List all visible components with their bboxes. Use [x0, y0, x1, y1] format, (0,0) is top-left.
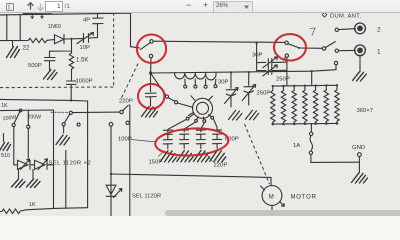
svg-text:30P: 30P — [218, 80, 229, 86]
svg-text:SEL 1120R: SEL 1120R — [132, 193, 161, 199]
coil L2 variometer — [174, 73, 216, 80]
capacitor C3 1000P — [67, 81, 77, 100]
wire feed to switch S1 — [131, 13, 140, 48]
wire main bus — [151, 71, 312, 73]
svg-text:SEL 1120R ×2: SEL 1120R ×2 — [49, 160, 92, 166]
switch S7 antenna selector — [322, 47, 325, 50]
svg-text:4P: 4P — [83, 18, 90, 24]
node diode junction — [70, 38, 72, 40]
resistor R4 1K — [0, 208, 88, 214]
diode D1 1N60 — [55, 35, 65, 44]
capacitor column C7 with ground — [161, 130, 177, 162]
wire to jack 2 — [339, 28, 356, 31]
switch S6 — [120, 110, 123, 113]
wire — [73, 111, 120, 114]
capacitor C4 220P — [145, 73, 156, 106]
wire — [286, 62, 288, 85]
switch S4 200W — [27, 125, 30, 128]
annotation red circle cap 220P — [138, 84, 164, 109]
node motor wire junction — [110, 173, 112, 175]
wire jack1 to ground — [359, 55, 361, 72]
antenna mark — [310, 28, 315, 36]
wire — [13, 127, 15, 165]
svg-text:1.5K: 1.5K — [76, 58, 88, 64]
resistor R2 1.5K — [69, 51, 73, 81]
rectifier D2 SEL — [14, 160, 35, 169]
ground — [12, 41, 14, 46]
leader 100P — [131, 140, 157, 143]
resistor bank R5-R11 360x7 — [271, 86, 275, 124]
svg-text:22: 22 — [23, 45, 30, 52]
ground — [353, 72, 367, 81]
wire fuse to gnd node — [311, 155, 360, 163]
rectifier D3 SEL — [35, 160, 54, 169]
annotation red circle switch S2 — [274, 34, 306, 60]
leader 150P — [158, 151, 165, 157]
switch S2 — [285, 41, 288, 44]
up arrow — [26, 1, 35, 11]
capacitor C 4P — [93, 13, 103, 37]
capacitor column C9 with ground — [194, 130, 210, 162]
svg-text:250P: 250P — [257, 91, 271, 97]
ground — [44, 70, 58, 80]
toolbar — [0, 0, 400, 13]
switch S3 200W — [19, 109, 22, 112]
wire left edge vertical — [6, 15, 8, 41]
ground — [32, 170, 34, 179]
rotor contacts — [165, 95, 168, 98]
svg-text:220P: 220P — [214, 163, 228, 169]
annotation red ellipse cap bank — [155, 127, 230, 158]
wire lamp return — [65, 151, 67, 208]
svg-text:1A: 1A — [293, 143, 300, 149]
wire top antenna line — [0, 13, 131, 15]
svg-text:MOTOR: MOTOR — [291, 195, 317, 201]
wire junction branch down — [50, 39, 72, 51]
coil taps — [185, 79, 216, 85]
svg-text:GND: GND — [352, 145, 365, 151]
fuse F1 1A — [310, 124, 312, 132]
wire top bus — [153, 41, 284, 42]
wire lamp box top — [0, 110, 54, 208]
svg-text:220P: 220P — [119, 99, 133, 105]
svg-text:250P: 250P — [276, 77, 290, 83]
trimmer C6 250P — [257, 63, 287, 75]
svg-text:500P: 500P — [28, 63, 42, 69]
dashed boundary horizontal — [0, 86, 114, 89]
wire to jack 1 — [339, 49, 356, 51]
annotation red circle switch S1 — [137, 35, 166, 63]
wire coil feed — [151, 73, 166, 95]
svg-text:10P: 10P — [80, 45, 91, 51]
wire vertical tap — [19, 15, 21, 41]
svg-text:510: 510 — [1, 153, 10, 159]
wire — [64, 38, 83, 40]
svg-text:150P: 150P — [149, 160, 163, 166]
svg-text:1N60: 1N60 — [48, 24, 61, 30]
ground — [56, 135, 70, 145]
dashed boundary diagonal left — [122, 64, 139, 99]
svg-text:2: 2 — [377, 26, 381, 33]
svg-text:1K: 1K — [29, 202, 36, 208]
down arrow — [36, 2, 45, 12]
page number input — [45, 1, 63, 12]
variable capacitor VC2 — [248, 71, 250, 73]
trimmer C5 30P — [257, 43, 287, 66]
switch S5 power — [51, 111, 69, 113]
switch S1 — [141, 43, 151, 50]
variable capacitor VC1 — [230, 71, 232, 73]
wire motor feed — [111, 174, 271, 185]
trimmer C 10P — [84, 34, 98, 43]
ground — [142, 107, 158, 118]
coil L1 antenna coil — [23, 12, 52, 15]
horizontal scrollbar thumb — [165, 210, 400, 216]
resistor bank rail top — [273, 84, 337, 87]
ground — [352, 173, 368, 183]
resistor R1 22 — [28, 38, 47, 42]
antenna symbol DUM ANT — [322, 12, 327, 17]
leader 220P row — [206, 153, 213, 162]
jack J2 — [355, 23, 366, 34]
ground — [18, 170, 20, 179]
zoom dropdown — [213, 1, 253, 13]
dashed boundary diagonal right — [245, 124, 270, 184]
svg-text:DUM. ANT.: DUM. ANT. — [330, 14, 361, 20]
wire — [47, 39, 54, 42]
node rail junctions — [272, 85, 274, 87]
svg-text:M: M — [269, 193, 274, 200]
svg-text:360×7: 360×7 — [357, 108, 374, 114]
node contact B — [77, 123, 80, 126]
svg-text:1000P: 1000P — [76, 78, 93, 84]
resistor bank rail bottom — [273, 122, 337, 125]
capacitor C 500P — [45, 51, 56, 70]
zoom out — [186, 0, 191, 10]
wire B+ rail — [0, 99, 88, 207]
wire selector to bus — [312, 65, 336, 86]
motor M1 — [262, 186, 282, 206]
zoom in — [203, 0, 208, 10]
svg-text:1: 1 — [377, 48, 381, 55]
svg-text:200W: 200W — [28, 115, 42, 121]
capacitor column C10 with ground — [210, 130, 226, 162]
terminal GND — [358, 153, 362, 157]
rotor U1 — [193, 98, 213, 118]
jack J1 — [355, 45, 366, 56]
svg-text:1K: 1K — [1, 103, 8, 109]
rotor fan wires — [168, 114, 195, 132]
junction node A — [149, 71, 152, 74]
dashed boundary vertical — [113, 13, 115, 87]
rectifier D4 SEL 1120R — [106, 185, 116, 196]
capacitor column C8 with ground — [177, 130, 193, 162]
svg-text:30P: 30P — [252, 52, 263, 58]
wire input rail — [0, 40, 28, 42]
resistor R3 510 with ground — [3, 134, 5, 142]
svg-text:100P: 100P — [118, 136, 132, 142]
sidebar toggle icon — [5, 2, 15, 12]
